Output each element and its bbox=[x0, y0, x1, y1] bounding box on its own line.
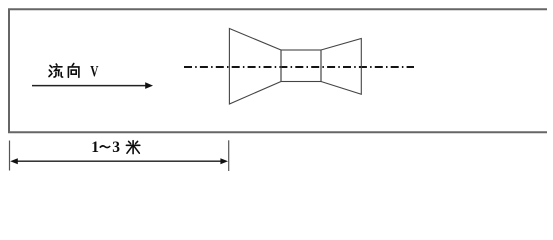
svg-text:V: V bbox=[90, 64, 99, 81]
svg-text:1: 1 bbox=[91, 139, 99, 156]
svg-text:3: 3 bbox=[112, 139, 120, 156]
